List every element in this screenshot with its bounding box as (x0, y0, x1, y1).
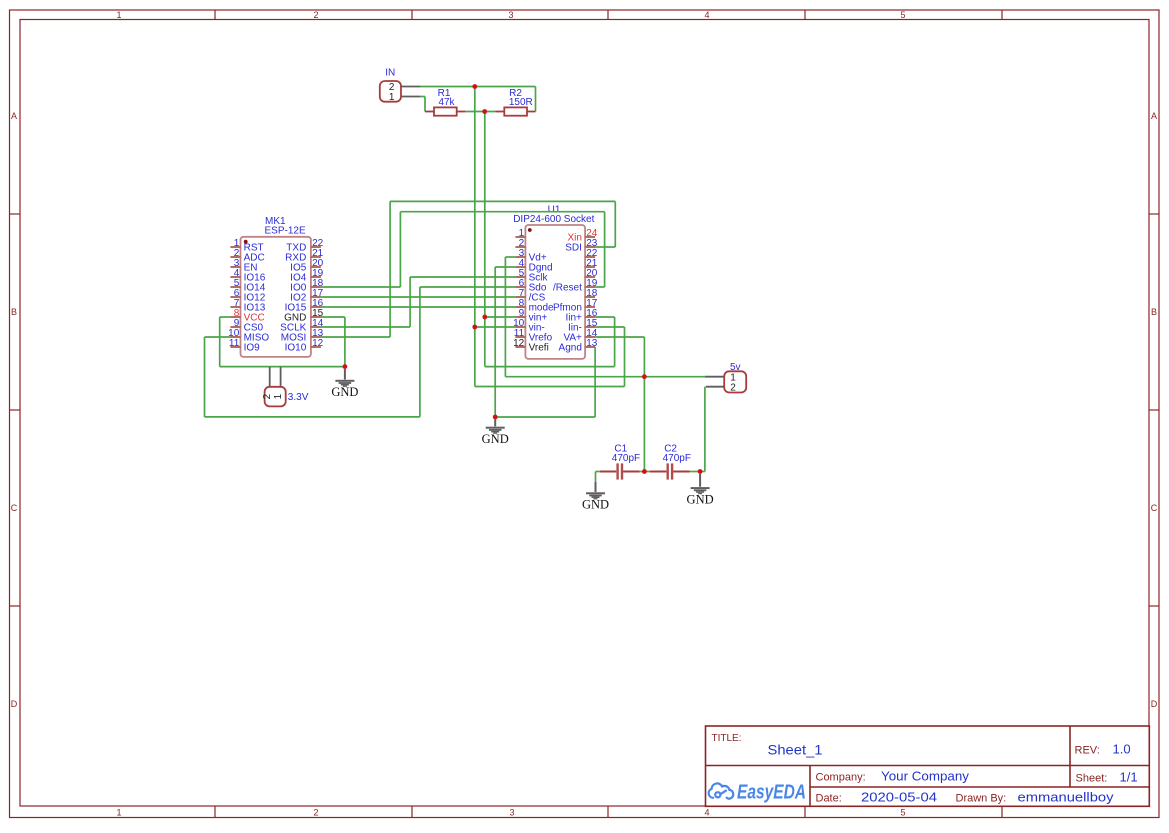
MK1 pin 13 (MOSI) right stub (310, 336, 321, 338)
svg-text:SDI: SDI (565, 243, 582, 254)
wire U1 VA+ pin14 out (595, 336, 644, 338)
title block v-line Sheet cell (1069, 766, 1071, 788)
MK1 pin 9 (CS0) left stub (230, 326, 241, 328)
MK1 pin 17 (IO2) right stub (310, 296, 321, 298)
U1 pin 8 left stub (515, 306, 526, 308)
MK1 pin 10 (MISO) left stub (230, 336, 241, 338)
title block v-line REV cell (1069, 726, 1071, 766)
wire MISO net to U1 Sdo pin6 (420, 286, 516, 288)
wire R1 left riser (424, 97, 426, 112)
wire U1 vin- pin10 entry (475, 326, 516, 328)
svg-text:3: 3 (509, 808, 514, 818)
MK1 pin1 marker dot (244, 240, 248, 244)
U1 pin 19 right stub (585, 286, 596, 288)
U1 pin 6 left stub (515, 286, 526, 288)
MK1 pin 22 (TXD) right stub (310, 246, 321, 248)
wire GND pin15 drop (344, 317, 346, 367)
U1 pin 2 left stub (515, 246, 526, 248)
wire IO0-/Reset top rail (400, 211, 604, 213)
resistor R1 body (434, 107, 457, 115)
wire Iin- drop (624, 327, 626, 387)
U1 pin 20 right stub (585, 276, 596, 278)
svg-text:Your Company: Your Company (881, 769, 970, 784)
svg-text:2: 2 (730, 382, 736, 393)
connector 3.3V pin lines (269, 367, 271, 387)
svg-text:DIP24-600 Socket: DIP24-600 Socket (513, 214, 594, 225)
wire Vd+ drop (504, 257, 506, 377)
title block v-line logo cell (809, 766, 811, 807)
wire Dgnd-Agnd gnd rail (495, 416, 595, 418)
MK1 pin 5 (IO14) left stub (230, 286, 241, 288)
IC MK1 ESP-12E body (241, 237, 311, 357)
svg-text:2020-05-04: 2020-05-04 (861, 790, 937, 805)
U1 pin 16 right stub (585, 316, 596, 318)
svg-text:Sheet:: Sheet: (1076, 773, 1108, 785)
wire 5v supply rail (505, 376, 705, 378)
connector 5v pin lines (705, 376, 724, 378)
wire IN pin2 net drop (474, 87, 476, 387)
svg-text:emmanuellboy: emmanuellboy (1018, 790, 1115, 805)
ground symbol GND (below C2) (699, 474, 701, 487)
IC U1 DIP24-600 Socket body (525, 225, 585, 359)
junction vin+ (482, 315, 487, 320)
wire ESP IO2 to U1 /CS (321, 296, 516, 298)
svg-text:1: 1 (389, 92, 395, 103)
capacitor C2 leads (650, 471, 667, 473)
ground symbol GND (near ESP / 3.3V) (344, 369, 346, 380)
connector IN pin lines (401, 86, 420, 88)
wire C2 right to gnd node (690, 471, 705, 473)
svg-text:1: 1 (116, 10, 121, 20)
U1 pin 12 left stub (515, 346, 526, 348)
MK1 pin 19 (IO4) right stub (310, 276, 321, 278)
wire MOSI riser (389, 201, 391, 337)
wire SCLK riser (409, 277, 411, 327)
wire U1 SDI pin23 entry (595, 246, 615, 248)
wire Agnd drop (594, 347, 596, 417)
U1 pin 1 left stub (515, 236, 526, 238)
wire U1 Iin- pin15 entry (595, 326, 624, 328)
U1 pin 15 right stub (585, 326, 596, 328)
wire VA+ 5v caps drop (643, 337, 645, 472)
svg-text:Sheet_1: Sheet_1 (768, 742, 823, 758)
svg-text:/Reset: /Reset (553, 283, 582, 294)
svg-text:GND: GND (482, 432, 509, 446)
wire C1 left terminal (596, 471, 600, 473)
U1 pin 4 left stub (515, 266, 526, 268)
resistor R1 leads (425, 111, 434, 113)
svg-text:11: 11 (229, 338, 240, 349)
resistor R2 leads (496, 111, 505, 113)
EasyEDA logo cloud icon (709, 783, 734, 798)
title block outer border (706, 726, 1150, 806)
MK1 pin 2 (ADC) left stub (230, 256, 241, 258)
MK1 pin 15 (GND) right stub (310, 316, 321, 318)
wire VCC left drop (219, 317, 221, 367)
capacitor C1 plates (616, 463, 618, 479)
svg-text:3.3V: 3.3V (288, 392, 309, 403)
svg-text:13: 13 (586, 338, 598, 349)
svg-text:1/1: 1/1 (1120, 770, 1138, 785)
svg-text:2: 2 (262, 393, 273, 399)
svg-text:4: 4 (704, 10, 709, 20)
wire C1-C2 link (640, 471, 650, 473)
wire R1 right to R2 left (465, 111, 496, 113)
svg-text:470pF: 470pF (663, 453, 691, 464)
svg-text:GND: GND (687, 493, 714, 507)
wire MISO left drop (204, 337, 206, 417)
title block h-line under Company row (810, 786, 1149, 788)
U1 pin 23 right stub (585, 246, 596, 248)
svg-text:5: 5 (900, 10, 905, 20)
junction IN2 rail (472, 84, 477, 89)
svg-text:4: 4 (704, 808, 709, 818)
wire /Reset riser (604, 212, 606, 287)
svg-text:IN: IN (385, 68, 395, 79)
svg-text:Vrefi: Vrefi (529, 343, 549, 354)
wire ESP VCC pin8 out (220, 316, 231, 318)
svg-text:A: A (1151, 111, 1157, 121)
svg-text:C: C (1151, 503, 1158, 513)
MK1 pin 11 (IO9) left stub (230, 346, 241, 348)
svg-text:C: C (11, 503, 18, 513)
MK1 pin 8 (VCC) left stub (230, 316, 241, 318)
svg-text:1.0: 1.0 (1113, 742, 1131, 757)
wire U1 Iin+ pin16 entry (595, 316, 615, 318)
capacitor C1 leads (600, 471, 617, 473)
junction caps mid (642, 469, 647, 474)
U1 pin 10 left stub (515, 326, 526, 328)
svg-text:470pF: 470pF (612, 453, 640, 464)
svg-text:IO9: IO9 (244, 343, 261, 354)
svg-text:12: 12 (513, 338, 525, 349)
svg-text:EasyEDA: EasyEDA (737, 782, 806, 804)
svg-text:GND: GND (331, 385, 358, 399)
svg-text:IO10: IO10 (285, 343, 307, 354)
wire Dgnd drop (494, 267, 496, 417)
wire VCC to 3.3V and GND rail (220, 366, 345, 368)
svg-text:5v: 5v (730, 362, 741, 373)
MK1 pin 7 (IO13) left stub (230, 306, 241, 308)
MK1 pin 6 (IO12) left stub (230, 296, 241, 298)
frame column ticks top (214, 10, 216, 20)
MK1 pin 21 (RXD) right stub (310, 256, 321, 258)
wire ESP IO0 pin18 out (321, 286, 401, 288)
U1 pin1 marker dot (528, 228, 532, 232)
svg-text:GND: GND (582, 498, 609, 512)
svg-text:REV:: REV: (1075, 745, 1100, 757)
wire U1 Vd+ pin3 entry (505, 256, 515, 258)
MK1 pin 12 (IO10) right stub (310, 346, 321, 348)
svg-text:ESP-12E: ESP-12E (265, 226, 306, 237)
junction C2 gnd (698, 469, 703, 474)
MK1 pin 18 (IO0) right stub (310, 286, 321, 288)
wire MISO bottom rail (205, 416, 420, 418)
junction 5v rail (642, 374, 647, 379)
wire 5v pin2 gnd drop (704, 387, 706, 472)
resistor R2 body (504, 107, 527, 115)
MK1 pin 3 (EN) left stub (230, 266, 241, 268)
ground symbol GND (below C1) (595, 482, 597, 492)
connector 3.3V body (265, 387, 286, 407)
ground symbol GND (Dgnd net) (494, 419, 496, 426)
junction R1-R2 mid (482, 109, 487, 114)
U1 pin 24 right stub (585, 236, 596, 238)
wire SDI riser (614, 201, 616, 247)
MK1 pin 16 (IO15) right stub (310, 306, 321, 308)
wire U1 /Reset pin19 entry (595, 286, 605, 288)
wire R1R2 mid drop (484, 112, 486, 367)
svg-text:1: 1 (273, 393, 284, 399)
U1 pin 3 left stub (515, 256, 526, 258)
svg-text:150R: 150R (509, 97, 533, 108)
wire Iin+ drop (614, 317, 616, 367)
svg-text:Date:: Date: (816, 793, 842, 805)
title block h-line under TITLE row (706, 765, 1150, 767)
U1 pin 18 right stub (585, 296, 596, 298)
svg-text:B: B (1151, 307, 1157, 317)
MK1 pin 20 (IO5) right stub (310, 266, 321, 268)
wire C1 gnd drop (595, 472, 597, 482)
wire MOSI-SDI top rail (390, 200, 615, 202)
wire ESP MISO pin10 out (205, 336, 231, 338)
svg-text:2: 2 (313, 10, 318, 20)
svg-text:3: 3 (508, 10, 513, 20)
U1 pin 17 right stub (585, 306, 596, 308)
svg-text:12: 12 (312, 338, 324, 349)
connector IN body (380, 81, 401, 102)
wire ESP IO15 to U1 mode (321, 306, 516, 308)
svg-text:2: 2 (313, 808, 318, 818)
MK1 pin 4 (IO16) left stub (230, 276, 241, 278)
svg-text:Drawn By:: Drawn By: (956, 793, 1007, 805)
junction GND Dgnd (493, 415, 498, 420)
U1 pin 7 left stub (515, 296, 526, 298)
junction GND near ESP (343, 364, 348, 369)
frame column ticks bottom (214, 806, 216, 818)
frame row ticks right (1149, 213, 1159, 215)
svg-text:D: D (1151, 699, 1158, 709)
wire ESP SCLK pin14 out (321, 326, 410, 328)
svg-text:A: A (11, 111, 17, 121)
frame row ticks left (10, 213, 21, 215)
wire R2 right drop (535, 87, 537, 112)
MK1 pin 1 (RST) left stub (230, 246, 241, 248)
U1 pin 22 right stub (585, 256, 596, 258)
U1 pin 14 right stub (585, 336, 596, 338)
wire U1 Dgnd pin4 entry (495, 266, 515, 268)
U1 pin 5 left stub (515, 276, 526, 278)
wire ESP MOSI pin13 out (321, 336, 390, 338)
wire U1 vin+ pin9 entry (485, 316, 516, 318)
wire vin- lower rail (475, 386, 625, 388)
U1 pin 9 left stub (515, 316, 526, 318)
svg-text:1: 1 (116, 808, 121, 818)
junction vin- (472, 325, 477, 330)
svg-text:Agnd: Agnd (559, 343, 582, 354)
U1 pin 21 right stub (585, 266, 596, 268)
wire Sdo riser (419, 287, 421, 417)
wire vin+ lower rail (485, 366, 615, 368)
wire SCLK to U1 Sclk pin5 (410, 276, 515, 278)
U1 pin 13 right stub (585, 346, 596, 348)
svg-text:B: B (11, 307, 17, 317)
wire IN pin1 stub right (420, 96, 425, 98)
wire IN pin2 to R2 top rail (420, 86, 536, 88)
svg-text:TITLE:: TITLE: (712, 733, 742, 744)
wire IO0 riser (399, 212, 401, 287)
U1 pin 11 left stub (515, 336, 526, 338)
capacitor C2 plates (667, 463, 669, 479)
connector 5v body (724, 371, 746, 392)
wire ESP GND pin15 out (321, 316, 345, 318)
svg-text:47k: 47k (438, 97, 455, 108)
svg-text:Company:: Company: (816, 772, 866, 784)
svg-text:D: D (11, 699, 18, 709)
svg-text:5: 5 (900, 808, 905, 818)
MK1 pin 14 (SCLK) right stub (310, 326, 321, 328)
